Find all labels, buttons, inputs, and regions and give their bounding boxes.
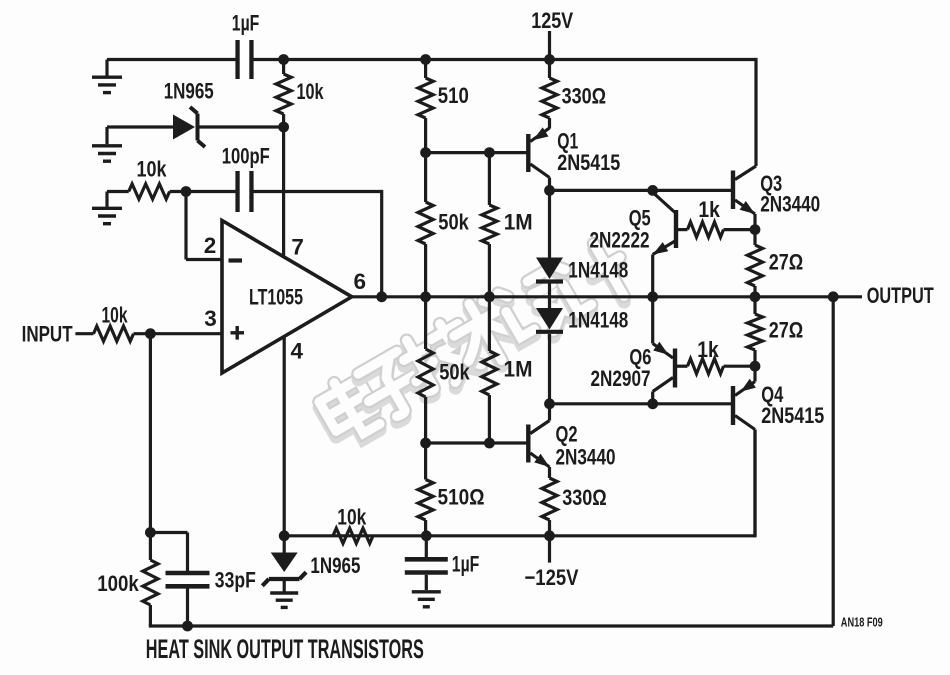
svg-text:3: 3 bbox=[204, 306, 217, 331]
label 510ohm bbox=[438, 485, 485, 510]
label Q6 type bbox=[591, 366, 651, 391]
pin 2 wire bbox=[186, 192, 222, 260]
transistor Q5 2N2222 bbox=[653, 192, 676, 296]
svg-text:1M: 1M bbox=[504, 210, 533, 235]
svg-text:1N965: 1N965 bbox=[310, 553, 360, 578]
svg-text:2N2222: 2N2222 bbox=[590, 228, 650, 253]
resistor 1k lower bbox=[677, 359, 755, 374]
svg-text:50k: 50k bbox=[439, 360, 470, 385]
label 1N4148 upper bbox=[568, 258, 628, 283]
node 50k mid bbox=[420, 291, 431, 302]
label Q4 bbox=[761, 382, 783, 407]
node Q6 collector junction bbox=[647, 398, 658, 409]
resistor R 510ohm bbox=[418, 443, 433, 536]
wire zener row bbox=[107, 125, 284, 128]
node 1M mid bbox=[484, 291, 495, 302]
node bus-510 junction bbox=[420, 54, 431, 65]
op-amp U1 LT1055 bbox=[222, 221, 352, 374]
capacitor C2 100pF bbox=[186, 171, 382, 212]
pin 4 label bbox=[291, 339, 304, 364]
ground G1 bbox=[92, 60, 122, 93]
svg-text:100k: 100k bbox=[97, 571, 139, 596]
svg-text:330Ω: 330Ω bbox=[562, 84, 607, 109]
label Q2 type bbox=[556, 445, 616, 470]
node 33pF-bus junction bbox=[182, 621, 193, 632]
node bus-10k junction bbox=[278, 54, 289, 65]
node bus-330 junction bbox=[544, 54, 555, 65]
label 33pF bbox=[215, 567, 256, 592]
svg-text:LT1055: LT1055 bbox=[249, 285, 303, 310]
svg-text:INPUT: INPUT bbox=[22, 322, 73, 347]
resistor 50k lower bbox=[418, 297, 433, 443]
svg-text:510Ω: 510Ω bbox=[438, 485, 485, 510]
node 510-50k junction bbox=[420, 147, 431, 158]
resistor 100k bbox=[143, 533, 158, 627]
transistor Q4 2N5415 bbox=[733, 366, 756, 536]
ground G2 bbox=[92, 127, 122, 161]
label Q3 bbox=[760, 171, 782, 196]
label 1N965 bottom bbox=[310, 553, 360, 578]
svg-text:2N3440: 2N3440 bbox=[556, 445, 616, 470]
svg-text:1N4148: 1N4148 bbox=[568, 308, 628, 333]
svg-text:125V: 125V bbox=[531, 8, 573, 33]
label Q3 type bbox=[760, 192, 820, 217]
svg-text:6: 6 bbox=[354, 269, 367, 294]
label Q1 type bbox=[557, 150, 620, 175]
op-amp plus sign bbox=[231, 326, 245, 340]
label 1k lower bbox=[697, 337, 719, 362]
pin 7 label bbox=[291, 235, 304, 260]
label LT1055 bbox=[249, 285, 303, 310]
wire bottom bus bbox=[284, 430, 755, 538]
wire Q2 collector row bbox=[550, 402, 734, 405]
label Q5 type bbox=[590, 228, 650, 253]
capacitor C3 33pF bbox=[166, 533, 210, 627]
op-amp minus sign bbox=[229, 258, 243, 262]
svg-text:27Ω: 27Ω bbox=[769, 250, 804, 275]
wire Q2 base row bbox=[426, 441, 529, 444]
label 100k bbox=[97, 571, 139, 596]
label 1uF bottom bbox=[452, 552, 480, 577]
node output border bbox=[828, 291, 839, 302]
label 1N4148 lower bbox=[568, 308, 628, 333]
label 125V bbox=[531, 8, 573, 33]
svg-text:1k: 1k bbox=[698, 197, 720, 222]
label 27ohm upper bbox=[769, 250, 804, 275]
node 1M bottom junction bbox=[484, 438, 495, 449]
transistor Q1 2N5415 bbox=[528, 127, 549, 190]
resistor 330ohm upper bbox=[542, 60, 557, 129]
node Q5 collector junction bbox=[647, 185, 658, 196]
label 1M upper bbox=[504, 210, 533, 235]
svg-text:1µF: 1µF bbox=[452, 552, 480, 577]
label 510 bbox=[438, 83, 469, 108]
node feedback junction bbox=[376, 291, 387, 302]
label Q6 bbox=[629, 345, 651, 370]
diode D2 1N4148 bbox=[536, 190, 563, 281]
svg-text:27Ω: 27Ω bbox=[769, 318, 804, 343]
svg-text:2N2907: 2N2907 bbox=[591, 366, 651, 391]
resistor 330ohm lower bbox=[542, 467, 557, 536]
transistor Q2 2N3440 bbox=[528, 404, 549, 467]
svg-text:100pF: 100pF bbox=[222, 144, 270, 169]
diode D4 1N965 zener bbox=[262, 536, 306, 608]
label INPUT bbox=[22, 322, 73, 347]
wire 125V stub bbox=[548, 31, 551, 60]
svg-text:10k: 10k bbox=[102, 303, 128, 328]
watermark bbox=[312, 236, 640, 450]
label HEAT SINK bbox=[146, 634, 424, 664]
svg-text:1N4148: 1N4148 bbox=[568, 258, 628, 283]
node zener junction bbox=[278, 122, 289, 133]
svg-text:1M: 1M bbox=[504, 357, 533, 382]
label 1N965 top bbox=[164, 79, 214, 104]
label 100pF bbox=[222, 144, 270, 169]
svg-text:330Ω: 330Ω bbox=[562, 485, 607, 510]
resistor R 1M lower bbox=[482, 297, 497, 443]
label OUTPUT bbox=[867, 283, 934, 308]
resistor 27ohm upper bbox=[747, 230, 762, 297]
wire Q1 collector row bbox=[550, 189, 734, 192]
capacitor C4 1uF bbox=[405, 536, 448, 607]
resistor R 1M upper bbox=[482, 153, 497, 297]
label Q4 type bbox=[761, 403, 824, 428]
svg-text:1µF: 1µF bbox=[232, 11, 259, 36]
label AN18 F09 bbox=[841, 615, 883, 630]
label 50k lower bbox=[439, 360, 470, 385]
svg-text:10k: 10k bbox=[337, 505, 366, 530]
label 1M lower bbox=[504, 357, 533, 382]
svg-text:50k: 50k bbox=[438, 210, 469, 235]
svg-text:4: 4 bbox=[291, 339, 304, 364]
pin 4 wire bbox=[283, 336, 286, 536]
resistor R 510 bbox=[418, 60, 433, 153]
wire Q1 base row bbox=[426, 151, 529, 154]
svg-text:1k: 1k bbox=[697, 337, 719, 362]
label Q2 bbox=[556, 422, 578, 447]
label 1k upper bbox=[698, 197, 720, 222]
svg-text:10k: 10k bbox=[297, 79, 324, 104]
node Q3 emitter junction bbox=[750, 224, 761, 235]
node 330-supply junction bbox=[544, 530, 555, 541]
svg-text:−125V: −125V bbox=[525, 565, 579, 590]
resistor 10k top bbox=[276, 74, 291, 114]
label 10k top bbox=[297, 79, 324, 104]
wire 33pF branch bbox=[150, 531, 187, 534]
ground G3 bbox=[92, 192, 122, 224]
svg-text:OUTPUT: OUTPUT bbox=[867, 283, 934, 308]
svg-text:10k: 10k bbox=[137, 157, 167, 182]
label 330ohm lower bbox=[562, 485, 607, 510]
svg-text:2N5415: 2N5415 bbox=[761, 403, 824, 428]
svg-text:1N965: 1N965 bbox=[164, 79, 214, 104]
svg-text:2N5415: 2N5415 bbox=[557, 150, 620, 175]
transistor Q3 2N3440 bbox=[733, 166, 756, 230]
svg-text:AN18 F09: AN18 F09 bbox=[841, 615, 883, 630]
svg-text:Q2: Q2 bbox=[556, 422, 578, 447]
label -125V bbox=[525, 565, 579, 590]
diode D3 1N4148 bbox=[536, 284, 563, 404]
node QA emitters bbox=[647, 291, 658, 302]
node 50k-510 junction bbox=[420, 438, 431, 449]
node Q4 emitter junction bbox=[750, 361, 761, 372]
resistor 1k upper bbox=[678, 222, 755, 237]
wire input column bbox=[149, 334, 152, 533]
diode D1 1N965 zener bbox=[173, 107, 205, 147]
svg-text:HEAT SINK OUTPUT TRANSISTORS: HEAT SINK OUTPUT TRANSISTORS bbox=[146, 634, 424, 664]
capacitor C1 1uF plates bbox=[238, 40, 252, 79]
wire heat sink bus bbox=[149, 297, 833, 626]
wire pin7 column bbox=[282, 60, 285, 258]
svg-text:510: 510 bbox=[438, 83, 469, 108]
label 50k upper bbox=[438, 210, 469, 235]
node 1M top junction bbox=[484, 147, 495, 158]
node input junction bbox=[145, 328, 156, 339]
label 10k bottom bbox=[337, 505, 366, 530]
resistor 10k inverting bbox=[107, 184, 186, 199]
resistor 10k input bbox=[75, 326, 222, 341]
svg-text:2: 2 bbox=[204, 233, 217, 258]
pin 3 label bbox=[204, 306, 217, 331]
label 10k input bbox=[102, 303, 128, 328]
wire -125V stub bbox=[548, 536, 551, 563]
label 27ohm lower bbox=[769, 318, 804, 343]
node Q1 collector bbox=[544, 185, 555, 196]
node 27ohm junction bbox=[750, 291, 761, 302]
node Q2 collector bbox=[544, 398, 555, 409]
label 1uF bbox=[232, 11, 259, 36]
transistor Q6 2N2907 bbox=[653, 297, 675, 404]
node inverting input bbox=[181, 186, 192, 197]
wire top bus bbox=[107, 58, 756, 61]
node 100k junction bbox=[145, 527, 156, 538]
wire feedback bbox=[380, 190, 383, 297]
label 10k inverting bbox=[137, 157, 167, 182]
resistor 27ohm lower bbox=[747, 297, 762, 366]
label 330ohm upper bbox=[562, 84, 607, 109]
svg-text:7: 7 bbox=[291, 235, 304, 260]
wire Q3 collector riser bbox=[754, 58, 757, 166]
pin 2 label bbox=[204, 233, 217, 258]
pin 6 label bbox=[354, 269, 367, 294]
label Q1 bbox=[557, 129, 578, 154]
svg-text:33pF: 33pF bbox=[215, 567, 256, 592]
svg-text:2N3440: 2N3440 bbox=[760, 192, 820, 217]
node 510-1uF junction bbox=[421, 530, 432, 541]
resistor 10k bottom bbox=[333, 528, 373, 543]
resistor 50k upper bbox=[418, 153, 433, 297]
node pin4 junction bbox=[279, 530, 290, 541]
label Q5 bbox=[629, 206, 651, 231]
wire output row bbox=[352, 295, 862, 298]
